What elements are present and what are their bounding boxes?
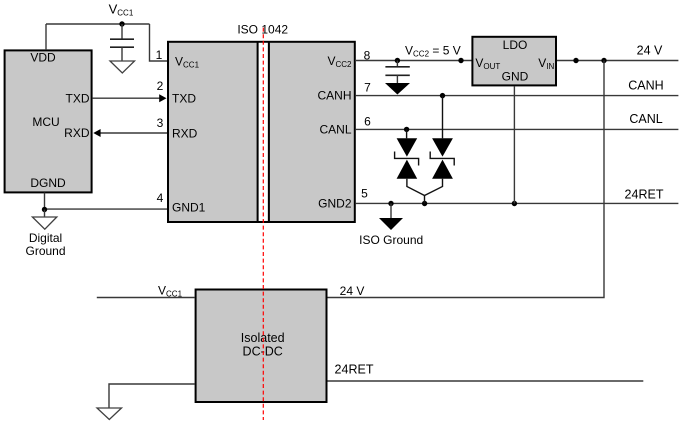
wire VCC1 horizontal xyxy=(46,23,150,25)
junction dot VCC1/C1 xyxy=(119,21,124,26)
svg-text:7: 7 xyxy=(364,81,371,95)
svg-text:Digital: Digital xyxy=(29,231,62,245)
junction dot ISO ground xyxy=(388,201,393,206)
MCU U1 box xyxy=(5,50,92,192)
ground symbol (under C1, open) xyxy=(110,61,135,73)
svg-text:GND1: GND1 xyxy=(172,201,206,215)
svg-text:VCC1: VCC1 xyxy=(109,2,134,18)
junction dot TVS return xyxy=(422,201,427,206)
junction dot CANH/TVS xyxy=(440,93,445,98)
TVS D1 bottom triangle xyxy=(397,160,418,179)
wire VIN to 24V xyxy=(557,60,678,62)
svg-text:CANL: CANL xyxy=(319,123,351,137)
LDO U3 box xyxy=(472,37,556,86)
svg-text:CANL: CANL xyxy=(629,112,662,126)
capacitor C1 stub top xyxy=(121,24,123,39)
wire CANL xyxy=(356,128,679,130)
TVS return stub xyxy=(424,196,426,204)
ISO ground stub xyxy=(390,204,392,219)
digital ground stub xyxy=(44,210,46,218)
svg-text:GND2: GND2 xyxy=(318,197,352,211)
TVS D1 stub top xyxy=(406,129,408,138)
ISO ground symbol under C2 (solid) xyxy=(385,83,410,95)
svg-text:VCC2 = 5 V: VCC2 = 5 V xyxy=(405,44,461,59)
TVS D2 stub top xyxy=(442,96,444,139)
svg-text:LDO: LDO xyxy=(503,38,528,52)
wire VDD stub xyxy=(45,24,47,50)
wire pin1 VCC1 to ISO xyxy=(150,24,168,61)
svg-text:24RET: 24RET xyxy=(625,188,664,202)
capacitor C1 plates xyxy=(110,38,134,40)
svg-text:DGND: DGND xyxy=(30,176,66,190)
arrowhead RXD xyxy=(93,129,100,137)
TVS D1 bottom wire xyxy=(407,179,425,196)
wire TXD MCU to ISO xyxy=(93,97,160,99)
svg-text:VCC1: VCC1 xyxy=(158,284,183,299)
digital ground symbol (open) xyxy=(32,217,56,229)
TVS D1 top triangle xyxy=(397,138,418,156)
wire DGND stub xyxy=(44,193,46,210)
junction dot VIN a xyxy=(573,58,578,63)
svg-text:RXD: RXD xyxy=(64,126,90,140)
wire VCC1 to DC-DC xyxy=(97,297,195,299)
wire LDO GND xyxy=(513,86,515,203)
svg-text:24 V: 24 V xyxy=(637,44,663,58)
svg-text:VDD: VDD xyxy=(30,51,56,65)
capacitor C1 stub bottom xyxy=(121,47,123,61)
TVS D1 zener bar xyxy=(395,152,419,166)
svg-text:CANH: CANH xyxy=(317,89,351,103)
wire RXD ISO to MCU xyxy=(100,132,167,134)
ISO1042 U2 box xyxy=(168,42,355,222)
arrowhead TXD xyxy=(159,94,166,102)
svg-text:CANH: CANH xyxy=(628,79,663,93)
svg-text:TXD: TXD xyxy=(172,92,196,106)
svg-text:24RET: 24RET xyxy=(335,363,374,377)
TVS D2 bottom wire xyxy=(425,179,443,196)
junction dot DGND xyxy=(42,207,47,212)
svg-text:Ground: Ground xyxy=(25,244,65,258)
isolation barrier red dashed line xyxy=(262,28,264,420)
wire GND1 xyxy=(45,208,168,210)
wire CANH xyxy=(356,95,679,97)
TVS D2 zener bar xyxy=(430,152,454,166)
capacitor C2 stub bottom xyxy=(396,75,398,84)
ISO ground symbol (solid) xyxy=(379,218,403,230)
svg-text:MCU: MCU xyxy=(32,115,59,129)
wire 24V drop to DC-DC xyxy=(328,61,605,298)
junction dot at LDO VOUT xyxy=(458,58,463,63)
capacitor C2 stub top xyxy=(396,61,398,67)
svg-text:3: 3 xyxy=(157,116,164,130)
svg-text:6: 6 xyxy=(364,115,371,129)
Isolated DC-DC box xyxy=(196,290,327,403)
isolation barrier bar left xyxy=(257,42,259,222)
svg-text:RXD: RXD xyxy=(172,127,198,141)
svg-text:TXD: TXD xyxy=(66,92,90,106)
svg-text:1: 1 xyxy=(156,48,163,62)
capacitor C2 plates xyxy=(385,66,409,68)
svg-text:4: 4 xyxy=(157,191,164,205)
isolation gap white stripe xyxy=(259,43,268,221)
wire DC-DC return xyxy=(109,384,195,408)
junction dot LDO GND xyxy=(512,201,517,206)
wire 24RET out xyxy=(328,380,644,382)
svg-text:24 V: 24 V xyxy=(340,284,365,298)
wire GND2 / 24RET xyxy=(356,202,679,204)
svg-text:5: 5 xyxy=(361,187,368,201)
TVS D2 bottom triangle xyxy=(432,160,453,179)
junction dot CANL/TVS xyxy=(404,127,409,132)
wire VCC2 pin8 to LDO xyxy=(355,60,472,62)
ground symbol bottom left (open) xyxy=(97,408,122,420)
svg-text:2: 2 xyxy=(157,79,164,93)
svg-text:GND: GND xyxy=(502,70,529,84)
isolation barrier bar right xyxy=(268,42,270,222)
svg-text:ISO Ground: ISO Ground xyxy=(359,233,423,247)
TVS D2 top triangle xyxy=(432,138,453,156)
junction dot VIN b xyxy=(601,58,606,63)
junction dot C2 xyxy=(395,58,400,63)
